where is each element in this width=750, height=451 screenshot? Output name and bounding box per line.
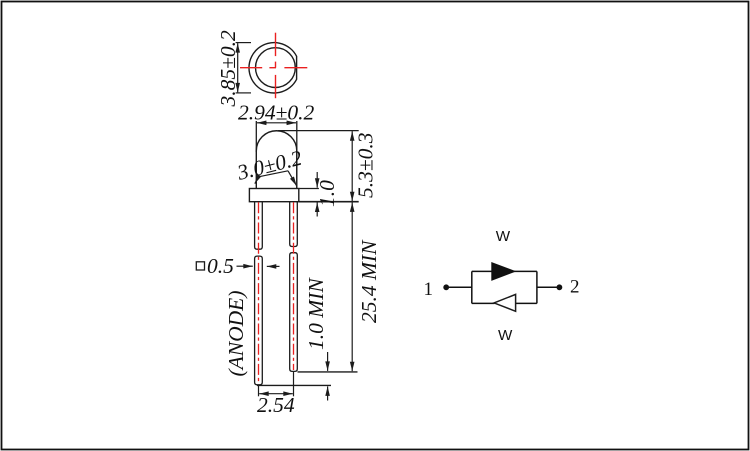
dim 1.0 flange arrows (316, 172, 318, 179)
dim 1.0 MIN arrows (327, 352, 329, 362)
diode W (filled, pointing right) (492, 263, 515, 280)
centerline horizontal (240, 67, 307, 69)
wire box to pin2 (537, 286, 560, 288)
svg-text:W: W (498, 327, 513, 344)
svg-text:0.5: 0.5 (207, 254, 234, 278)
svg-text:(ANODE): (ANODE) (224, 291, 248, 377)
flange bottom extension to right (299, 201, 359, 203)
wire pin1 to box (446, 286, 472, 288)
svg-text:1.0 MIN: 1.0 MIN (304, 277, 328, 350)
box left vertical wire (471, 271, 473, 303)
LED body outline (circle with flat) (249, 43, 297, 93)
inner circle (256, 48, 296, 88)
svg-text:3.85±0.2: 3.85±0.2 (216, 30, 240, 108)
dim 25.4 dimension line (351, 211, 353, 363)
dome top extension line to right (278, 130, 359, 132)
lead width arrows (237, 265, 244, 267)
svg-text:5.3±0.3: 5.3±0.3 (354, 132, 378, 198)
box top wire (472, 270, 537, 272)
box right vertical wire (536, 271, 538, 303)
svg-text:W: W (496, 228, 511, 245)
right lead red centerline (293, 202, 295, 370)
svg-text:2.54: 2.54 (257, 393, 295, 417)
dim 2.54 extension lines (258, 385, 260, 396)
extension line left of dome (255, 121, 257, 152)
extension line right of dome down to flange bottom (296, 121, 298, 202)
dim 5.3 dimension line (351, 140, 353, 193)
svg-text:2: 2 (570, 277, 580, 298)
diode W (open, pointing left) (494, 294, 516, 311)
right lead upper segment (290, 202, 298, 247)
svg-text:3.0±0.2: 3.0±0.2 (234, 146, 305, 185)
leader arrows for 3.0 (259, 171, 289, 177)
svg-text:1.0: 1.0 (315, 180, 339, 207)
left lead lower segment (255, 256, 263, 385)
dim 3.85 extension lines (236, 42, 251, 44)
square 0.5 symbol (196, 262, 204, 270)
box bottom wire right part (516, 302, 537, 304)
right lead lower segment (290, 253, 298, 372)
svg-text:1: 1 (424, 279, 434, 300)
dim 2.54 dimension line (266, 393, 286, 395)
svg-text:2.94±0.2: 2.94±0.2 (238, 101, 315, 125)
svg-text:25.4 MIN: 25.4 MIN (357, 239, 381, 323)
box bottom wire left part (472, 302, 495, 304)
dim 3.85 dimension line (237, 53, 239, 83)
node dot 1 (443, 284, 449, 290)
left lead red centerline (258, 202, 260, 383)
left lead bottom extension line (257, 384, 331, 386)
dim 2.94 dimension line with arrows (266, 122, 287, 124)
flange (249, 189, 298, 202)
node dot 2 (557, 284, 563, 290)
right lead bottom extension line (298, 371, 358, 373)
left lead upper segment (255, 202, 263, 250)
centerline vertical (275, 33, 277, 99)
flange top extension to right (299, 188, 319, 190)
epoxy dome (256, 131, 297, 189)
